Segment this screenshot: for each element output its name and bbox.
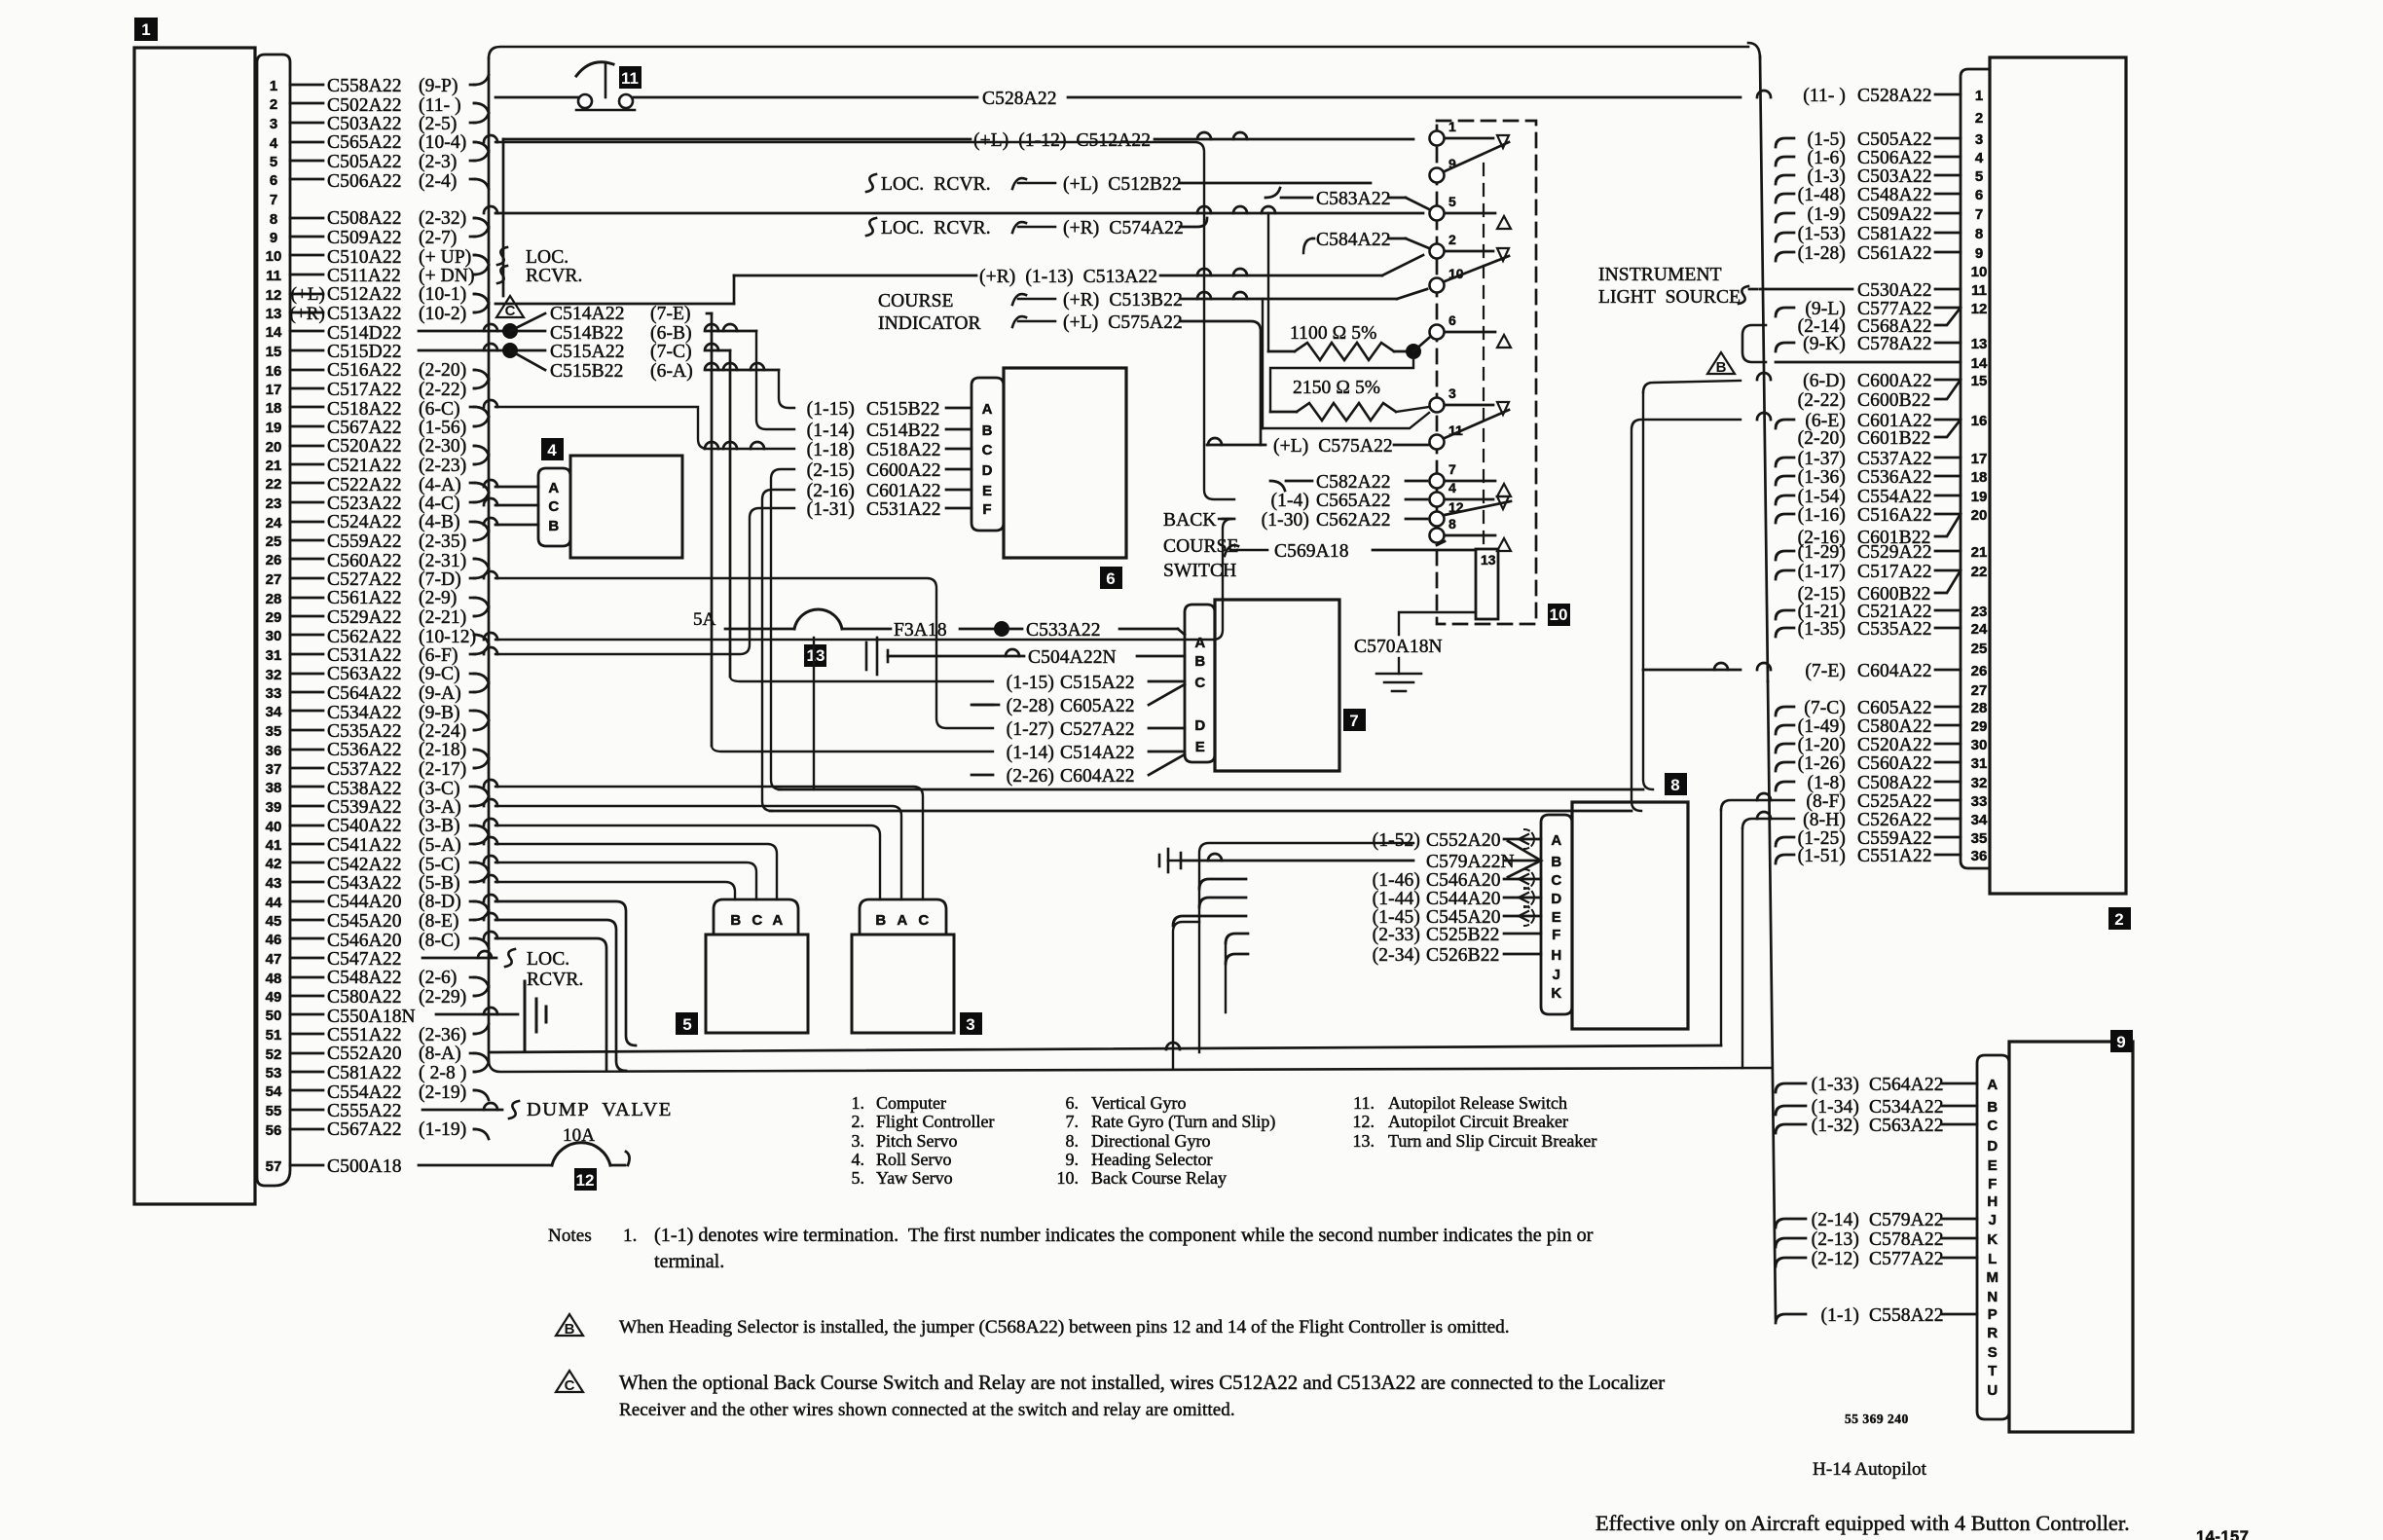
page number 14-157 [2196,1528,2249,1540]
wire C581A22 computer pin 53 [290,1062,489,1083]
svg-text:2150 Ω 5%: 2150 Ω 5% [1293,378,1380,398]
svg-text:(2-31): (2-31) [419,551,466,571]
svg-text:7.: 7. [1066,1112,1080,1131]
triangle note C [496,296,524,319]
svg-text:C526A22: C526A22 [1857,810,1932,830]
wire C511A22 computer pin 11 [290,265,489,286]
svg-text:(1-51): (1-51) [1798,846,1846,866]
svg-text:D: D [1551,891,1561,907]
svg-text:(1-54): (1-54) [1798,487,1846,507]
svg-text:LOC.: LOC. [526,247,568,268]
svg-text:11: 11 [266,268,281,284]
svg-text:11: 11 [621,69,639,88]
svg-text:C534A22: C534A22 [1869,1097,1944,1118]
wire C555A22 to dump valve [422,1101,519,1118]
svg-text:A: A [1987,1077,1998,1093]
svg-text:39: 39 [266,799,282,816]
svg-text:C: C [1551,872,1561,889]
relay contact circles [1430,119,1464,543]
wire C516A22 flight controller pin 20 [1776,505,1961,526]
wire C550A18N computer pin 50 [290,1007,416,1027]
svg-text:8: 8 [1448,516,1456,532]
svg-text:C601B22: C601B22 [1857,528,1930,548]
ground symbol C570A18N [1376,658,1421,691]
svg-text:53: 53 [266,1065,282,1082]
svg-text:6.: 6. [1066,1093,1080,1113]
INSTRUMENT LIGHT SOURCE label [1598,265,1757,308]
svg-text:26: 26 [266,552,282,568]
svg-text:45: 45 [266,913,282,930]
wire C601B22 jog to pin [1798,514,1961,548]
wire C548A22 flight controller pin 6 [1776,185,1961,205]
wire C577A22 flight controller pin 12 [1776,299,1961,319]
svg-text:50: 50 [266,1008,282,1024]
wire C543A22 computer pin 43 [290,872,489,894]
svg-text:24: 24 [1971,621,1988,638]
svg-text:30: 30 [266,628,282,644]
resistor 2150 arm from 11 [1263,413,1429,428]
svg-text:36: 36 [1971,848,1988,864]
notes text [548,1225,1594,1272]
svg-text:C503A22: C503A22 [1857,166,1932,187]
svg-text:C565A22: C565A22 [1316,491,1391,511]
svg-text:U: U [1987,1382,1998,1399]
relay coil 13 [1437,541,1498,619]
wire C547A22 to LOC RCVR [422,949,515,967]
svg-text:29: 29 [1971,718,1988,735]
roll servo box 4 [570,456,682,558]
svg-text:C520A22: C520A22 [1857,735,1932,755]
svg-text:S: S [1988,1344,1998,1361]
LOC. RCVR. label mid [527,949,583,990]
svg-text:F3A18: F3A18 [894,620,947,641]
svg-text:(2-14): (2-14) [1812,1210,1859,1230]
heading selector box 9 [2009,1042,2133,1432]
wire C551A22 flight controller pin 36 [1776,846,1961,866]
course indicator pin strip [972,378,1004,531]
wire C506A22 computer pin 6 [290,171,489,192]
svg-text:F: F [982,501,991,518]
wire C530A22 flight controller pin 11 [1760,280,1961,301]
svg-text:(11- ): (11- ) [1803,86,1846,106]
wire C515D22 line to junction [419,343,518,358]
svg-text:(+R) C513B22: (+R) C513B22 [1063,290,1183,311]
wire C582A22 to relay 7 [1270,472,1427,493]
svg-text:(7-D): (7-D) [419,569,461,590]
svg-text:23: 23 [266,495,282,512]
wire C565A22 computer pin 4 [290,132,489,153]
svg-text:(3-A): (3-A) [419,797,461,818]
wire C542A22 computer pin 42 [290,855,489,875]
svg-text:10: 10 [266,248,282,265]
tag 12 autopilot circuit breaker [574,1168,597,1191]
svg-text:(2-20): (2-20) [419,360,466,381]
wire C544A20 corner to bottom trunk [484,895,636,1045]
svg-text:C584A22: C584A22 [1316,230,1391,250]
wire C561A22 computer pin 28 [290,588,489,608]
svg-text:28: 28 [266,591,282,607]
svg-text:5.: 5. [852,1168,865,1188]
svg-text:1: 1 [1448,119,1456,134]
svg-text:(10-2): (10-2) [419,304,466,324]
svg-text:C582A22: C582A22 [1316,472,1391,493]
svg-text:7: 7 [1349,712,1358,730]
svg-text:LOC. RCVR.: LOC. RCVR. [881,218,991,238]
svg-text:28: 28 [1971,700,1988,716]
svg-text:C580A22: C580A22 [327,987,402,1008]
svg-text:C515B22: C515B22 [866,399,939,420]
svg-text:2: 2 [1448,232,1456,247]
svg-text:(10-12): (10-12) [419,627,476,647]
svg-text:C: C [505,303,516,319]
svg-text:C601B22: C601B22 [1857,428,1930,449]
svg-text:49: 49 [266,989,282,1006]
wire C534A22 computer pin 34 [290,703,489,723]
svg-text:17: 17 [1971,451,1988,467]
svg-text:(2-20): (2-20) [1798,428,1846,449]
svg-text:C567A22: C567A22 [327,1119,402,1140]
tag 6 vertical gyro [1100,567,1122,589]
svg-text:A: A [772,912,783,929]
bus to right row 16 [1631,413,1771,811]
rate gyro letters [1194,635,1205,755]
wire C560A22 flight controller pin 31 [1776,753,1961,774]
svg-text:4: 4 [270,135,278,152]
svg-text:Directional Gyro: Directional Gyro [1091,1131,1210,1151]
svg-text:33: 33 [1971,793,1988,810]
svg-text:27: 27 [266,571,282,588]
heading selector letters [1987,1077,1999,1399]
svg-text:8.: 8. [1066,1131,1080,1151]
svg-text:(4-B): (4-B) [419,512,460,532]
svg-text:(+ DN): (+ DN) [419,266,475,286]
rate gyro box 7 [1215,600,1339,771]
svg-text:47: 47 [266,951,282,968]
svg-text:10A: 10A [563,1125,595,1146]
svg-text:C543A22: C543A22 [327,873,402,894]
left vertical bus [488,58,491,1061]
svg-text:13.: 13. [1353,1131,1375,1151]
svg-text:(2-29): (2-29) [419,987,466,1008]
svg-text:B: B [565,1321,575,1338]
svg-text:RCVR.: RCVR. [526,266,582,286]
wire C570A18N coil return [1399,612,1476,635]
svg-text:14-157: 14-157 [2196,1528,2249,1540]
svg-text:13: 13 [807,646,825,665]
svg-text:C564A22: C564A22 [327,683,402,704]
svg-text:34: 34 [1971,812,1988,828]
svg-text:21: 21 [266,458,282,474]
resistor left vertical feeds [1263,213,1268,428]
wire C522A22 to roll servo [484,480,538,487]
heading selector pin strip [1977,1055,2009,1419]
svg-text:C: C [565,1377,575,1394]
svg-text:Vertical Gyro: Vertical Gyro [1091,1093,1186,1113]
wire C539A22 computer pin 39 [290,796,489,818]
svg-text:4: 4 [547,441,557,459]
svg-text:C563A22: C563A22 [327,664,402,684]
directional gyro V arms to B [1508,841,1541,877]
wire C567A22 computer pin 19 [290,417,489,438]
BACK COURSE SWITCH label [1163,510,1239,581]
svg-text:11.: 11. [1353,1093,1375,1113]
svg-text:(4-A): (4-A) [419,475,461,495]
svg-text:M: M [1987,1269,1999,1286]
svg-text:C514B22: C514B22 [866,421,939,441]
svg-text:C555A22: C555A22 [327,1101,402,1121]
wire C515D22 computer pin 15 [290,342,402,362]
wire C568A22 jog to pin [1798,308,1961,337]
svg-text:(2-19): (2-19) [419,1082,466,1103]
svg-text:(2-16): (2-16) [1798,528,1846,548]
svg-text:C546A20: C546A20 [1426,870,1501,891]
svg-text:27: 27 [1971,682,1988,699]
svg-text:3: 3 [1975,131,1983,148]
svg-text:52: 52 [266,1046,282,1063]
wire C579A22N to directional gyro [1426,852,1541,872]
svg-text:C518A22: C518A22 [327,399,402,420]
directional gyro box 8 [1572,802,1688,1029]
wire C516A22 computer pin 16 [290,360,489,381]
svg-text:(2-7): (2-7) [419,228,457,248]
wire C526B22 to directional gyro [1373,945,1541,966]
svg-text:(11- ): (11- ) [419,95,461,116]
trunk 833 [770,810,1631,813]
svg-text:C563A22: C563A22 [1869,1116,1944,1136]
legend column 3 [1353,1093,1597,1151]
svg-text:(1-44): (1-44) [1373,889,1420,909]
svg-text:C508A22: C508A22 [327,208,402,229]
svg-text:(5-A): (5-A) [419,835,461,856]
vertical gyro / course indicator box 6 [1004,368,1126,558]
svg-text:C541A22: C541A22 [327,835,402,856]
svg-text:When Heading Selector is insta: When Heading Selector is installed, the … [619,1317,1510,1338]
svg-text:12: 12 [1971,301,1988,317]
svg-text:C531A22: C531A22 [866,499,941,520]
svg-text:C538A22: C538A22 [327,779,402,799]
wire C505A22 flight controller pin 3 [1776,129,1961,150]
svg-text:5: 5 [1448,194,1456,209]
svg-text:C562A22: C562A22 [1316,510,1391,531]
wire C577A22 heading selector [1776,1249,1977,1269]
wire C543A22 feed to servo [484,875,735,899]
svg-text:(+L) C575A22: (+L) C575A22 [1063,312,1183,333]
svg-text:C546A20: C546A20 [327,931,402,951]
svg-text:(1-4): (1-4) [1271,491,1309,511]
svg-text:9.: 9. [1066,1150,1080,1169]
svg-text:(2-14): (2-14) [1798,316,1846,337]
wire C525B22 to directional gyro [1373,925,1541,945]
resistor 1100 lower loop [1270,357,1413,412]
svg-text:C528A22: C528A22 [982,89,1057,109]
wire C524A22 to roll servo [484,518,538,525]
svg-text:Pitch Servo: Pitch Servo [876,1131,958,1151]
svg-text:(5-C): (5-C) [419,855,460,875]
wire C547A22 computer pin 47 [290,949,402,970]
svg-text:C503A22: C503A22 [327,114,402,134]
svg-text:BACK: BACK [1163,510,1217,531]
svg-text:SWITCH: SWITCH [1163,561,1236,581]
svg-text:1.: 1. [623,1226,637,1246]
yaw servo letters B C A [730,912,783,929]
svg-text:(1-8): (1-8) [1808,773,1846,793]
svg-text:(+L) C512B22: (+L) C512B22 [1063,174,1182,195]
svg-text:(10-4): (10-4) [419,132,466,153]
svg-text:(3-B): (3-B) [419,816,460,836]
svg-text:C544A20: C544A20 [327,892,402,912]
svg-text:10: 10 [1550,605,1568,624]
svg-text:(8-E): (8-E) [419,911,459,932]
svg-text:C522A22: C522A22 [327,475,402,495]
svg-text:(1-6): (1-6) [1808,148,1846,168]
wire C541A22 computer pin 41 [290,834,489,856]
course indicator pin letters A-F [982,401,993,518]
svg-text:57: 57 [266,1158,282,1175]
svg-text:A: A [1551,832,1561,849]
svg-text:(1-18): (1-18) [807,440,855,460]
svg-text:(2-24): (2-24) [419,721,466,742]
svg-text:10.: 10. [1057,1168,1080,1188]
svg-text:(1-30): (1-30) [1262,510,1309,531]
svg-text:C517A22: C517A22 [327,380,402,400]
svg-text:C544A20: C544A20 [1426,889,1501,909]
svg-text:B: B [1987,1099,1998,1116]
svg-text:(6-A): (6-A) [650,361,693,382]
wire C500A18 pin 57 to breaker 12 [419,1152,630,1165]
svg-text:18: 18 [266,400,282,417]
svg-text:A: A [548,480,559,496]
wire C605A22 row to rate gyro C [972,684,1185,716]
tag 4 roll servo [541,438,564,460]
wire C562A22 computer pin 30 [290,627,489,647]
svg-text:C564A22: C564A22 [1869,1075,1944,1095]
wire to right row 26 (7-E) [1643,663,1771,670]
svg-text:C565A22: C565A22 [327,132,402,153]
tag 13 turn and slip breaker [804,644,826,667]
wire C514D22 line to junction [419,323,518,339]
svg-text:C551A22: C551A22 [327,1025,402,1045]
svg-text:COURSE: COURSE [1163,536,1239,557]
wire C508A22 flight controller pin 32 [1776,773,1961,793]
svg-text:E: E [1195,739,1206,755]
riser to right row 33 [1720,810,1722,1045]
wire C562A22 to relay 12 [484,510,1427,640]
wire C580A22 computer pin 49 [290,986,489,1008]
svg-text:C530A22: C530A22 [1857,280,1932,301]
svg-text:(8-C): (8-C) [419,931,460,951]
svg-text:(9-B): (9-B) [419,703,460,723]
svg-text:16: 16 [1971,413,1988,429]
svg-text:B: B [730,912,741,929]
svg-text:C545A20: C545A20 [327,911,402,932]
svg-text:C531A22: C531A22 [327,645,402,666]
svg-text:(+L) C575A22: (+L) C575A22 [1273,436,1393,457]
svg-text:6: 6 [1106,569,1115,588]
wire C551A22 computer pin 51 [290,1024,489,1045]
svg-text:1: 1 [1975,88,1983,104]
wire C600A22 feed [771,469,794,789]
wire C531A22 computer pin 31 [290,644,489,666]
svg-text:(2-22): (2-22) [419,380,466,400]
svg-text:(2-28): (2-28) [1007,696,1054,716]
svg-text:LOC. RCVR.: LOC. RCVR. [881,174,991,195]
svg-text:(2-30): (2-30) [419,436,466,457]
svg-text:(8-H): (8-H) [1803,810,1846,830]
wire C518A22 feed [484,400,794,449]
svg-text:(+R): (+R) [290,304,325,324]
svg-text:(2-6): (2-6) [419,968,457,988]
svg-text:C525A22: C525A22 [1857,791,1932,812]
svg-text:1: 1 [141,20,150,39]
wire C515B22 feed [779,370,794,408]
svg-text:C513A22: C513A22 [327,304,402,324]
svg-text:C579A22: C579A22 [1869,1210,1944,1230]
part number 55 369 240 [1845,1412,1909,1426]
wire C520A22 computer pin 20 [290,436,489,457]
svg-text:C527A22: C527A22 [327,569,402,590]
computer pin strip [257,55,290,1186]
wire C552A20 to directional gyro [1373,829,1541,851]
wire C564A22 computer pin 33 [290,682,489,704]
svg-text:C561A22: C561A22 [327,588,402,608]
svg-text:Effective only on Aircraft equ: Effective only on Aircraft equipped with… [1595,1511,2130,1535]
circuit breaker 13 arc 5A [693,609,891,630]
legend column 1 [852,1093,995,1188]
wire C545A20 computer pin 45 [290,910,489,932]
svg-text:(1-19): (1-19) [419,1119,466,1140]
wire C538A22 computer pin 38 [290,779,489,799]
wire C531A22 to course indicator pin F [807,499,972,520]
tag 7 rate gyro [1343,709,1366,731]
svg-text:C534A22: C534A22 [327,703,402,723]
wire C550A18N to ground battery [436,1008,518,1014]
wire C515B22 (6-A) [510,350,779,382]
svg-text:C506A22: C506A22 [327,171,402,192]
svg-text:(1-37): (1-37) [1798,449,1846,469]
wire C541A22 feed to servo [484,837,777,899]
wire C546A20 computer pin 46 [290,931,489,951]
svg-text:(9-K): (9-K) [1803,334,1846,354]
svg-text:C604A22: C604A22 [1857,661,1932,681]
svg-text:C568A22: C568A22 [1857,316,1932,337]
svg-text:B: B [548,518,559,534]
svg-text:C581A22: C581A22 [327,1063,402,1083]
svg-text:20: 20 [266,439,282,456]
svg-text:(2-21): (2-21) [419,607,466,628]
svg-text:Notes: Notes [548,1226,592,1246]
svg-text:Flight Controller: Flight Controller [876,1112,995,1131]
tag 5 yaw servo [676,1012,698,1035]
svg-text:(+R) (1-13) C513A22: (+R) (1-13) C513A22 [979,267,1157,287]
svg-text:15: 15 [266,344,282,360]
wire C584A22 [1303,230,1429,253]
svg-text:C506A22: C506A22 [1857,148,1932,168]
svg-text:20: 20 [1971,507,1988,524]
roll servo pin letters [548,480,559,534]
svg-text:B: B [982,422,993,439]
svg-text:(6-C): (6-C) [419,399,460,420]
svg-text:C521A22: C521A22 [327,456,402,476]
svg-text:C551A22: C551A22 [1857,846,1932,866]
svg-text:D: D [1987,1138,1998,1155]
wire C579A22 heading selector [1776,1210,1977,1230]
svg-text:32: 32 [266,667,282,683]
pitch servo letters B A C [875,912,929,929]
svg-text:C537A22: C537A22 [1857,449,1932,469]
svg-text:F: F [1552,927,1561,943]
svg-text:(1-35): (1-35) [1798,619,1846,640]
svg-text:(1-5): (1-5) [1808,129,1846,150]
